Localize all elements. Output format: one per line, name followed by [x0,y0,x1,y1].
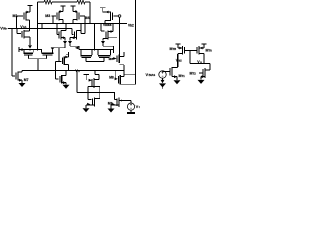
wire - input row (y=28.5) [8,28,72,30]
wire - M4 drain down to bias rail [72,20,74,24]
wire - MG drain up to mid rail [123,71,125,77]
svg-text:TA: TA [209,48,212,52]
wire - T6 source down [69,38,71,41]
transistor M10 [59,76,61,83]
wire - left rail corner down / tail of pair1 (x=37.5) [37,2,39,50]
wire - x55 vertical / M10 gate drop [54,62,56,80]
svg-text:M7: M7 [24,78,29,82]
wire - VDD stem to M1 [29,6,31,13]
arrow - VBIAS current [161,80,165,83]
wire - pair2 left drain drop 2 [80,50,82,56]
transistor M11g [92,99,94,106]
wire - Vt to ground [130,110,132,112]
wire - VDD stem MTA [203,44,205,48]
wire - M4 gate jog left [81,33,85,35]
node - rail corner on row B [89,23,91,25]
svg-text:IN+: IN+ [3,26,8,30]
wire - M1 gate down to input wire [16,16,18,29]
svg-text:M: M [179,74,182,78]
transistor MT2 [202,69,204,77]
wire - MTB/MTA gate tie [185,50,197,52]
wire - T6 drain up [80,24,82,34]
source Vt (circle) [127,103,134,110]
transistor M4 [78,13,80,20]
wire - link between bias rows at x=42 [41,24,43,29]
wire - T7 bulk stub right [108,37,117,39]
wire - T-bar stem [85,75,87,81]
svg-text:Vbias: Vbias [103,23,112,27]
wire - T5 gate drop from bias row A [56,24,58,35]
svg-text:M8: M8 [109,75,114,79]
wire - M4 gate down long [84,16,86,34]
wire - M4 gate lead [80,15,85,17]
transistor Q1b (rotated input pair right) [41,50,43,53]
source VBIAS (circle) [159,71,166,78]
svg-text:Vb2: Vb2 [128,24,134,28]
power VDD stub above M1 [27,5,32,7]
wire - pair1 gate tap down [37,59,39,71]
node - M4 drain on row B [72,23,74,25]
node - T5 drain junction [65,28,67,30]
node - x77 junction [76,70,78,72]
arrow - into M6 gate [89,79,92,82]
transistor Q2a (rotated pair2 left) [91,50,93,56]
wire - VDD stem to M2 [102,8,104,12]
svg-text:M6: M6 [109,57,114,61]
wire - MG source to long bus bottom [120,83,135,85]
node - M1 gate junction [16,28,18,30]
node - M5 source junction [29,49,31,51]
arrow - MG gate [115,78,118,81]
wire - down to Vt source [130,101,132,104]
wire - MT2 gate lead [199,72,203,74]
node - M12g source junction [110,104,112,106]
transistor T6 [74,32,76,39]
ground below M7 [19,83,26,87]
transistor MTA [196,47,198,54]
transistor M6 [91,79,93,87]
wire - pair2 right terminal bar [113,48,115,53]
wire - MX drain up [68,52,70,57]
power VDD stub above MTA [201,43,206,45]
wire - Vs down to MT2 drain [209,64,211,71]
wire - VBIAS to ground [162,78,164,82]
wire - M6 drain zig up [98,75,100,80]
wire - M11g source down [85,105,87,108]
transistor M1 [23,13,25,20]
wire - T6 source jog right [70,45,79,47]
wire - mid horizontal rail (y=70.5) [22,70,124,72]
wire - right rail corner down (x=90) [89,2,91,24]
wire - MT2 drain stub [205,69,210,71]
ground below MT1 [174,80,181,84]
wire - pair2 left drain drop 1 [78,46,80,49]
node - pair2 tail on row B [94,23,96,25]
wire - T6 gate drop [71,29,73,35]
wire - Vin- bus down to M8 (x=119.6) [119,17,121,55]
node - MX source junction [68,70,70,72]
ground below Vt (bar) [127,112,135,114]
wire - top rail middle segment [52,1,77,3]
wire - pair2 drain rail (y=49.6) [81,49,114,51]
node - T6 drain on row B [80,23,82,25]
transistor M8 [116,56,118,63]
node - MG drain on mid rail [123,70,125,72]
svg-text:M3: M3 [45,14,50,18]
node - pair1 tail junction [37,49,39,51]
wire - MX drain tick [66,53,69,55]
wire - top rail left segment [38,1,45,3]
power VDD stub above M2 [100,7,105,9]
wire - M8 drain stub up [123,52,125,57]
ground below VBIAS [159,83,166,87]
node - junction x=99.75 [99,92,101,94]
wire - M3 drain down to bias rail [62,20,64,24]
wire - M5 gate drop [16,29,18,34]
transistor M2 [112,13,114,21]
node - x55 junction [55,70,57,72]
wire - MG gate drop [115,71,117,78]
wire - left bus (x=12) [11,29,13,77]
transistor MG [117,76,119,83]
wire - long right bus (x=135.6) [135,0,137,84]
node - link junction [41,28,43,30]
wire - MT1 source down [176,77,178,81]
wire - T7 drain up [112,24,114,32]
power VDD stub above M3 [60,5,65,7]
wire - T-bar above M6 [84,74,90,76]
svg-text:M: M [190,72,193,76]
transistor T5 [58,32,60,39]
transistor Q1a (rotated input pair left) [23,50,25,53]
svg-text:+: + [130,103,132,107]
wire - M1 gate lead [17,15,23,17]
transistor M12g [116,99,118,107]
wire - M12g source down [110,105,112,108]
wire - MX source down to mid rail [68,65,70,71]
node - Vin- bus on row B [119,23,121,25]
wire - M3 gate down [52,16,54,24]
svg-text:b1: b1 [23,25,27,29]
wire - bias row A (y=23.5) left segment [38,23,58,25]
wire - M7 source down [21,80,23,83]
wire - M8 source to mid rail (x=124) [123,65,125,71]
arrow - T6 source down [68,41,72,44]
wire - pair2 tail (x=94.5) [94,24,96,50]
wire - pair1 drain rail (y=49.6) [19,49,42,51]
node - MX gate junction [58,61,60,63]
wire - MT1 gate lead [166,71,169,73]
port Vin- bubble [118,15,121,18]
arrow - M5 source current arrow [28,45,32,48]
transistor MX [61,58,63,65]
wire - pair1 gate tie [29,58,47,60]
svg-text:M: M [206,48,209,52]
wire - MTB drain down to MT1 [177,54,179,68]
wire - T7 source jog right [103,45,114,47]
ground below M12g [108,109,115,113]
node - pair2 tail junction [94,49,96,51]
wire - x77 vertical to CMFB [76,71,78,93]
transistor MT1 [169,68,171,76]
svg-text:t: t [139,105,140,109]
svg-text:V: V [146,72,149,77]
transistor MTB [184,47,186,54]
wire - M10 source down [65,83,67,85]
node - T7 drain on row B [112,23,114,25]
wire - T5 drain up to rows [65,24,67,31]
resistor R2 [77,0,85,4]
wire - M7 drain up [21,71,23,73]
wire - T7 source down 2 [102,44,104,46]
wire - M12g gate drop [114,93,116,100]
svg-text:M: M [170,47,173,51]
wire - T6 source down 2 [69,44,71,46]
wire - T5 source down [64,38,66,41]
node - junction x=114.5 [114,92,116,94]
ground below M11g [83,108,90,112]
power VDD stub above MTB [175,43,180,45]
wire - T5 source jog to pair1 drain [54,47,66,49]
wire - MX gate lead [55,61,61,63]
wire - top rail right segment [85,1,90,3]
wire - pair1 right drain stub [52,50,54,53]
wire - M6 source down to M11g gate (x=88) [87,87,89,100]
wire - M12g drain to source Vt [119,100,131,102]
wire - M5 source down [29,37,31,45]
transistor M5 [21,31,23,38]
wire - M2 source down to bias rail [104,21,106,24]
node - Vin wire junction x=12 [11,28,13,30]
wire - MTA drain down to Vs [203,54,205,64]
resistor R1 [44,0,52,4]
node - rail midpoint junction [64,1,66,3]
wire - bias row B (y=23.5) right segment [57,23,127,25]
power VDD stub above M4 [70,5,75,7]
arrow - onto pair1 right drain [51,47,55,50]
wire - M2 gate lead [114,15,119,17]
wire - M10 drain up [65,71,67,76]
transistor M3 [56,13,58,20]
wire - VBIAS top stub [162,70,164,73]
wire - M1 to M5 vertical x=29.5 [29,20,31,31]
node - M6 drain junction [94,70,96,72]
wire - pair2 right drain drop [113,46,115,49]
wire - MT2 source down [200,77,202,80]
wire - M7 gate lead [12,75,15,77]
wire - Vs node horizontal [190,63,210,65]
node - pair1 gate tap junction [37,70,39,72]
wire - MG drain to long bus [124,74,136,76]
wire - VDD stem MTB [177,44,179,48]
ground below M10 [63,85,70,89]
arrow - on pair2 left drain [75,47,78,50]
arrow - T7 source down [101,41,105,44]
wire - pair1 left terminal bar [18,47,20,52]
transistor Q2b (rotated pair2 right) [97,50,99,56]
transistor T7 [105,32,107,39]
wire - T5 source down 2 [64,44,66,48]
wire - gate tie down to Vs node [189,51,191,64]
wire - T7 gate drop [100,24,102,32]
wire - T7 source down [102,39,104,41]
wire - M6 drain to mid rail [94,71,96,75]
wire - pair2 gate tie [86,61,104,63]
wire - M3 gate lead [52,15,57,17]
transistor M7 [15,73,17,80]
arrow - pair1 left drain [19,48,22,51]
node - M5 drain junction [29,28,31,30]
wire - drop to MX gate rail (x=59) [58,48,60,62]
wire - CMFB rail (y=92.5) [77,92,115,94]
ground below MT2 [198,80,205,84]
node - junction on drain wire [120,100,122,102]
node - M3 drain on row B [62,23,64,25]
arrow - T5 source down [63,41,67,44]
node - T7 gate on row B [100,23,102,25]
svg-text:BIAS: BIAS [149,73,156,77]
wire - M6 source right branch down (x=99.75) [99,87,101,99]
svg-text:TB: TB [173,47,177,51]
